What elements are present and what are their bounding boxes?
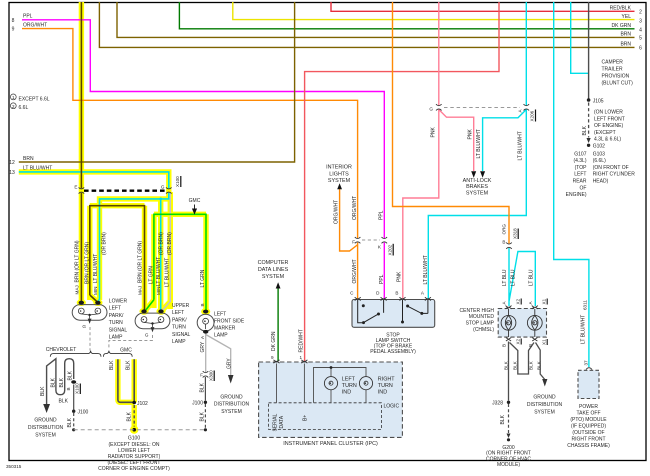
svg-text:(PTO) MODULE: (PTO) MODULE bbox=[570, 417, 607, 423]
svg-text:BLK: BLK bbox=[51, 377, 57, 387]
svg-text:LIGHTS: LIGHTS bbox=[329, 171, 349, 177]
svg-text:LT BLU/WHT: LT BLU/WHT bbox=[93, 254, 99, 283]
svg-text:TURN: TURN bbox=[172, 325, 186, 331]
lamp2 ground dash L-shape bbox=[109, 335, 153, 348]
svg-text:(OR BRN): (OR BRN) bbox=[167, 232, 173, 255]
svg-text:RED/BLK: RED/BLK bbox=[610, 5, 632, 11]
svg-text:BLK: BLK bbox=[127, 411, 133, 421]
svg-text:UPPER: UPPER bbox=[172, 303, 190, 309]
CHMSL box bbox=[498, 309, 546, 338]
svg-text:LT BLU/WHT: LT BLU/WHT bbox=[476, 129, 482, 158]
svg-text:STOP LAMP: STOP LAMP bbox=[466, 321, 495, 327]
svg-text:SYSTEM: SYSTEM bbox=[466, 191, 489, 197]
svg-text:LAMP: LAMP bbox=[109, 335, 123, 341]
wire GRY branch to ground dist bbox=[206, 335, 231, 376]
chevrolet brace bbox=[50, 351, 101, 357]
svg-text:PPL: PPL bbox=[23, 14, 33, 20]
svg-text:EXCEPT 6.6L: EXCEPT 6.6L bbox=[19, 96, 50, 102]
svg-text:BLK: BLK bbox=[67, 417, 73, 427]
svg-text:LT BLU/WHT: LT BLU/WHT bbox=[518, 131, 524, 160]
CHMSL terminals bbox=[506, 306, 512, 309]
svg-text:(6.6L): (6.6L) bbox=[593, 158, 606, 164]
GMC brace bbox=[103, 351, 132, 357]
legend except 6.6L bbox=[10, 94, 16, 100]
svg-text:BLK: BLK bbox=[68, 370, 74, 380]
svg-text:GROUND: GROUND bbox=[34, 418, 57, 424]
svg-text:ORG/WHT: ORG/WHT bbox=[23, 22, 47, 28]
svg-text:B: B bbox=[528, 344, 533, 347]
LOGIC box bbox=[269, 403, 382, 430]
svg-text:IND: IND bbox=[378, 389, 387, 395]
svg-text:PARK/: PARK/ bbox=[172, 317, 187, 323]
svg-text:CORNER OF ENGINE COMPT): CORNER OF ENGINE COMPT) bbox=[98, 466, 170, 472]
svg-text:LEFT FRONT: LEFT FRONT bbox=[594, 116, 625, 122]
svg-text:G: G bbox=[145, 333, 149, 338]
svg-text:LAMP: LAMP bbox=[172, 339, 186, 345]
svg-text:CHEVROLET: CHEVROLET bbox=[46, 347, 77, 353]
svg-text:PARK/: PARK/ bbox=[109, 313, 124, 319]
svg-text:TURN: TURN bbox=[342, 383, 357, 389]
svg-text:INSTRUMENT PANEL CLUSTER (IPC): INSTRUMENT PANEL CLUSTER (IPC) bbox=[283, 441, 378, 447]
connector X318 terminal B bbox=[506, 243, 512, 249]
svg-text:BLK: BLK bbox=[504, 360, 509, 370]
svg-text:LOWER: LOWER bbox=[109, 299, 128, 305]
wire BRN (OR LT GRN) MAJ to lower lamp bbox=[80, 2, 82, 301]
svg-text:TAKE OFF: TAKE OFF bbox=[576, 411, 600, 417]
svg-text:CAMPER: CAMPER bbox=[602, 60, 624, 66]
wire LT GRN park/marker bbox=[146, 214, 206, 310]
svg-text:OF ENGINE): OF ENGINE) bbox=[594, 123, 624, 129]
svg-text:X2: X2 bbox=[516, 338, 521, 344]
svg-text:2: 2 bbox=[639, 9, 642, 15]
svg-text:DATA: DATA bbox=[279, 415, 285, 428]
svg-text:SIGNAL: SIGNAL bbox=[109, 327, 128, 333]
svg-text:G103: G103 bbox=[593, 151, 605, 157]
svg-text:GROUND: GROUND bbox=[220, 394, 243, 400]
svg-text:G: G bbox=[161, 185, 165, 190]
svg-text:CENTER HIGH: CENTER HIGH bbox=[460, 308, 495, 314]
svg-text:ORG: ORG bbox=[502, 224, 507, 235]
wire BRN circuit 12 bbox=[19, 2, 295, 162]
svg-text:(CHMSL): (CHMSL) bbox=[473, 327, 494, 333]
upper left park/turn signal lamp bbox=[135, 313, 170, 332]
svg-text:B: B bbox=[502, 240, 505, 245]
svg-text:GRY: GRY bbox=[227, 358, 233, 369]
svg-text:X300: X300 bbox=[209, 370, 214, 381]
svg-text:J100: J100 bbox=[78, 410, 89, 416]
wire BLK CHMSL U link bbox=[510, 343, 535, 375]
wire PNK bbox=[403, 2, 439, 299]
svg-text:SERIAL: SERIAL bbox=[273, 413, 279, 431]
svg-text:BRN (OR LT GRN): BRN (OR LT GRN) bbox=[138, 241, 144, 283]
svg-text:LOGIC: LOGIC bbox=[384, 404, 400, 410]
wire ORG to X318 bbox=[393, 2, 510, 244]
svg-text:CHASSIS FRAME): CHASSIS FRAME) bbox=[567, 443, 610, 449]
wire GRY marker lamp ground bbox=[205, 334, 207, 372]
svg-text:PROVISION: PROVISION bbox=[602, 74, 630, 80]
wire BLK X300 to J100 right bbox=[204, 377, 206, 401]
svg-text:LT BLU/WHT: LT BLU/WHT bbox=[165, 258, 171, 287]
svg-text:PPL: PPL bbox=[379, 210, 385, 220]
svg-text:BLK: BLK bbox=[59, 399, 69, 405]
IPC box bbox=[259, 362, 403, 437]
node J100 left bbox=[72, 410, 75, 413]
svg-text:MAJ: MAJ bbox=[138, 286, 143, 295]
svg-text:ANTI-LOCK: ANTI-LOCK bbox=[463, 178, 492, 184]
svg-text:X1: X1 bbox=[542, 298, 547, 304]
svg-text:SYSTEM: SYSTEM bbox=[35, 433, 56, 439]
svg-text:6.6L: 6.6L bbox=[19, 105, 29, 111]
wire BLK CHMSL bulb1 to J328 bbox=[508, 342, 510, 401]
svg-text:B: B bbox=[395, 291, 398, 296]
svg-text:6: 6 bbox=[639, 46, 642, 52]
wire BLK X100 to J100 left bbox=[73, 385, 75, 410]
svg-text:COMPUTER: COMPUTER bbox=[258, 260, 289, 266]
svg-text:POWER: POWER bbox=[579, 404, 598, 410]
svg-text:SIGNAL: SIGNAL bbox=[172, 332, 191, 338]
wire BLK dashed to splice right bbox=[204, 404, 206, 428]
svg-text:4: 4 bbox=[639, 28, 642, 34]
svg-text:LT BLU/WHT: LT BLU/WHT bbox=[23, 165, 52, 171]
wire BLK dashed J328 to G200 bbox=[508, 404, 510, 433]
svg-text:1: 1 bbox=[299, 355, 302, 360]
svg-text:ENGINE): ENGINE) bbox=[566, 192, 587, 198]
svg-text:J328: J328 bbox=[492, 400, 503, 406]
svg-text:G: G bbox=[429, 107, 433, 112]
GMC pointer arrow bbox=[193, 205, 197, 214]
svg-text:LT BLU: LT BLU bbox=[502, 269, 508, 286]
wire LT BLU/WHT to stop lamp switch A bbox=[428, 2, 526, 299]
svg-text:MOUNTED: MOUNTED bbox=[469, 314, 495, 320]
connector X202 terminals F and K bbox=[355, 237, 361, 243]
svg-text:B: B bbox=[66, 387, 71, 390]
connector X300 terminal F bbox=[203, 371, 209, 377]
svg-text:MIN: MIN bbox=[156, 287, 161, 295]
connector X100 terminals E and G bbox=[79, 187, 85, 193]
svg-text:BLK: BLK bbox=[40, 386, 46, 396]
svg-text:SYSTEM: SYSTEM bbox=[534, 409, 555, 415]
connector X206 dashed line bbox=[444, 107, 520, 109]
IPC internal wires bbox=[277, 364, 367, 403]
svg-text:PNK: PNK bbox=[468, 129, 474, 140]
ground distribution arrow (marker lamp) bbox=[228, 375, 234, 384]
svg-text:SYSTEM: SYSTEM bbox=[221, 409, 242, 415]
svg-text:(EXCEPT: (EXCEPT bbox=[594, 130, 616, 136]
svg-text:(4.3L): (4.3L) bbox=[573, 158, 586, 164]
svg-text:F: F bbox=[200, 372, 203, 377]
svg-text:BLK: BLK bbox=[537, 360, 542, 370]
svg-text:PNK: PNK bbox=[431, 127, 437, 138]
svg-text:J105: J105 bbox=[593, 98, 604, 104]
svg-text:PNK: PNK bbox=[397, 271, 403, 282]
svg-text:G100: G100 bbox=[128, 435, 140, 441]
svg-text:PEDAL ASSEMBLY): PEDAL ASSEMBLY) bbox=[370, 349, 416, 355]
svg-text:RIGHT FRONT: RIGHT FRONT bbox=[571, 437, 605, 443]
svg-text:LEFT: LEFT bbox=[172, 310, 184, 316]
svg-text:J100: J100 bbox=[192, 400, 203, 406]
svg-text:OF: OF bbox=[580, 185, 587, 191]
wire ORG/WHT circuit 9 bbox=[22, 29, 358, 299]
wire BRN circuit 6 bbox=[99, 2, 634, 47]
svg-text:BRN (OR LT GRN): BRN (OR LT GRN) bbox=[75, 240, 81, 282]
svg-text:DISTRIBUTION: DISTRIBUTION bbox=[527, 402, 563, 408]
ground distribution arrow (CHMSL) bbox=[542, 379, 547, 387]
svg-text:BLK: BLK bbox=[500, 414, 506, 424]
svg-text:BLK: BLK bbox=[126, 360, 132, 370]
svg-text:F: F bbox=[352, 239, 355, 244]
svg-text:4.3L & 6.6L): 4.3L & 6.6L) bbox=[594, 137, 621, 143]
wire RED/BLK circuit 2 bbox=[331, 2, 635, 11]
svg-text:X100: X100 bbox=[75, 383, 80, 394]
svg-text:LT BLU/WHT: LT BLU/WHT bbox=[156, 257, 162, 286]
wire DK GRN circuit 4 bbox=[179, 2, 634, 29]
ground distribution arrow (chevrolet) bbox=[43, 404, 50, 413]
svg-text:9: 9 bbox=[12, 27, 15, 33]
wire PNK branch to ABS bbox=[439, 110, 474, 172]
node J102 bbox=[132, 401, 136, 405]
svg-text:13: 13 bbox=[9, 170, 15, 176]
IPC terminals bbox=[274, 360, 280, 363]
svg-text:E: E bbox=[74, 185, 77, 190]
svg-text:G107: G107 bbox=[574, 151, 586, 157]
wire LT BLU/WHT (OR BRN) alternate gray bbox=[163, 193, 171, 310]
wire LT BLU/WHT to PTO bbox=[554, 2, 589, 367]
svg-text:B: B bbox=[502, 344, 507, 347]
svg-text:HEAD): HEAD) bbox=[593, 179, 609, 185]
svg-text:BRN: BRN bbox=[620, 32, 631, 38]
svg-text:GMC: GMC bbox=[120, 348, 132, 354]
wire BLK CHMSL bulb2 to ground arrow bbox=[536, 343, 545, 380]
svg-text:DK GRN: DK GRN bbox=[271, 331, 277, 351]
svg-text:INTERIOR: INTERIOR bbox=[326, 165, 352, 171]
anti-lock brakes arrows bbox=[471, 171, 476, 178]
svg-text:ORG/WHT: ORG/WHT bbox=[352, 196, 358, 220]
node J100 right bbox=[204, 401, 207, 404]
wire DK GRN serial data bbox=[277, 289, 279, 362]
wire BLK dashed J100 to splice bbox=[73, 413, 75, 428]
PTO terminal 37 bbox=[586, 368, 592, 370]
svg-text:(ON LOWER: (ON LOWER bbox=[594, 110, 623, 116]
svg-text:GMC: GMC bbox=[189, 198, 201, 204]
svg-text:LT BLU/WHT: LT BLU/WHT bbox=[423, 255, 429, 284]
ground G102 arrow and node bbox=[587, 138, 591, 143]
svg-text:GRY: GRY bbox=[200, 341, 206, 352]
svg-text:LEFT: LEFT bbox=[214, 312, 226, 318]
svg-text:J102: J102 bbox=[137, 401, 148, 407]
lower left park/turn signal lamp bbox=[72, 305, 107, 324]
computer data lines arrow bbox=[276, 282, 281, 288]
svg-text:SYSTEM: SYSTEM bbox=[262, 274, 285, 280]
svg-text:BLK: BLK bbox=[200, 411, 206, 421]
svg-text:LT GRN: LT GRN bbox=[149, 266, 155, 284]
ground G200 arrow and node bbox=[507, 434, 511, 439]
svg-text:FRONT SIDE: FRONT SIDE bbox=[214, 319, 245, 325]
svg-text:REAR: REAR bbox=[573, 179, 587, 185]
svg-text:1: 1 bbox=[12, 95, 15, 100]
connector X100 dashed line bbox=[84, 190, 166, 192]
svg-text:LT BLU/WHT: LT BLU/WHT bbox=[581, 315, 587, 344]
svg-text:X202: X202 bbox=[388, 244, 393, 255]
svg-text:RED/WHT: RED/WHT bbox=[299, 329, 305, 352]
wire PPL circuit 8 bbox=[22, 20, 384, 299]
legend 6.6L bbox=[10, 103, 16, 109]
svg-text:GROUND: GROUND bbox=[533, 394, 556, 400]
svg-text:SYSTEM: SYSTEM bbox=[328, 178, 351, 184]
svg-text:G: G bbox=[82, 324, 86, 329]
svg-text:YEL: YEL bbox=[622, 14, 632, 20]
node G100 bbox=[132, 428, 136, 432]
svg-text:BLK: BLK bbox=[200, 382, 206, 392]
svg-text:ORG/WHT: ORG/WHT bbox=[352, 259, 358, 283]
svg-text:BLK: BLK bbox=[109, 360, 115, 370]
wire LT BLU/WHT circuit 13 highlighted bbox=[19, 172, 169, 310]
svg-text:BLK: BLK bbox=[582, 125, 588, 135]
svg-text:BLK: BLK bbox=[529, 360, 534, 370]
lamp terminals bbox=[71, 301, 208, 384]
wire BLK dashed J105 to G102 bbox=[588, 103, 590, 138]
interior lights system arrow bbox=[337, 183, 342, 189]
wire LT BLU/WHT branch to ABS bbox=[483, 110, 527, 172]
svg-text:IND: IND bbox=[342, 389, 351, 395]
node J105 bbox=[587, 98, 591, 102]
wire YEL circuit 3 bbox=[233, 2, 635, 20]
svg-text:2: 2 bbox=[12, 104, 15, 109]
wire BLK dashed J102 to G100 bbox=[133, 405, 135, 427]
stop lamp switch internals bbox=[358, 300, 428, 323]
right turn indicator bulb bbox=[359, 377, 372, 390]
svg-text:DISTRIBUTION: DISTRIBUTION bbox=[28, 425, 64, 431]
CHMSL bulb 2 bbox=[527, 315, 542, 330]
svg-text:B: B bbox=[200, 303, 205, 306]
PTO module box bbox=[578, 370, 599, 398]
svg-text:350315: 350315 bbox=[6, 464, 22, 469]
svg-text:RIGHT CYLINDER: RIGHT CYLINDER bbox=[593, 172, 636, 178]
svg-text:X2: X2 bbox=[516, 298, 521, 304]
svg-text:PPL: PPL bbox=[379, 274, 385, 284]
svg-text:BLK: BLK bbox=[59, 377, 65, 387]
wire ORG/WHT interior lights branch bbox=[340, 189, 358, 251]
wire BLK to J105 bbox=[588, 2, 590, 99]
svg-text:9: 9 bbox=[271, 355, 274, 360]
svg-text:6311: 6311 bbox=[583, 300, 588, 310]
svg-text:(OR BRN): (OR BRN) bbox=[159, 232, 165, 255]
svg-text:B+: B+ bbox=[303, 415, 309, 421]
svg-text:BRN (OR LT GRN): BRN (OR LT GRN) bbox=[85, 242, 91, 284]
svg-text:BRAKES: BRAKES bbox=[466, 184, 488, 190]
svg-text:BLK: BLK bbox=[513, 360, 518, 370]
connector X206 terminals G and A bbox=[436, 104, 442, 110]
svg-text:X318: X318 bbox=[513, 228, 518, 239]
wire RED/WHT bbox=[305, 2, 499, 361]
svg-text:X206: X206 bbox=[530, 110, 535, 121]
svg-text:BRN: BRN bbox=[23, 156, 34, 162]
left turn indicator bulb bbox=[324, 377, 337, 390]
wire BLK GMC grounds highlighted bbox=[118, 359, 134, 402]
svg-text:MAJ: MAJ bbox=[75, 285, 80, 294]
svg-text:DATA LINES: DATA LINES bbox=[258, 267, 289, 273]
svg-text:X100: X100 bbox=[175, 176, 180, 187]
svg-text:LT BLU: LT BLU bbox=[529, 269, 535, 286]
wire LT BLU camper trailer blunt cut bbox=[571, 2, 589, 73]
svg-text:ORG/WHT: ORG/WHT bbox=[334, 200, 340, 224]
stop lamp switch box bbox=[352, 300, 435, 328]
highlight underlay bbox=[19, 2, 206, 427]
svg-text:MODULE): MODULE) bbox=[497, 462, 520, 468]
svg-text:LT BLU: LT BLU bbox=[511, 269, 517, 286]
svg-text:LT GRN: LT GRN bbox=[200, 269, 206, 287]
svg-text:BRN: BRN bbox=[620, 42, 631, 48]
svg-text:LEFT: LEFT bbox=[342, 376, 356, 382]
wire BRN circuit 5 bbox=[117, 2, 635, 37]
wire BLK chevrolet ground serpentine bbox=[47, 359, 74, 405]
svg-text:(OR BRN): (OR BRN) bbox=[102, 232, 108, 255]
svg-text:5: 5 bbox=[639, 36, 642, 42]
svg-text:RIGHT: RIGHT bbox=[378, 376, 395, 382]
svg-text:MIN: MIN bbox=[93, 287, 98, 295]
svg-text:3: 3 bbox=[639, 19, 642, 25]
svg-text:TURN: TURN bbox=[378, 383, 393, 389]
svg-text:(ON FRONT OF: (ON FRONT OF bbox=[593, 165, 629, 171]
wire LT BLU X318 to CHMSL bbox=[509, 248, 535, 306]
splice dashed line J100-G100-J100 bbox=[74, 429, 206, 431]
wire BRN (OR LT GRN) link lower-upper bbox=[90, 206, 145, 310]
svg-text:LAMP: LAMP bbox=[214, 333, 228, 339]
svg-text:8: 8 bbox=[12, 18, 15, 24]
svg-text:DISTRIBUTION: DISTRIBUTION bbox=[214, 402, 250, 408]
node J328 bbox=[507, 401, 510, 404]
connector X202 dashed line bbox=[362, 239, 380, 241]
svg-text:37: 37 bbox=[584, 360, 589, 366]
svg-text:12: 12 bbox=[9, 160, 15, 166]
svg-text:(BLUNT CUT): (BLUNT CUT) bbox=[602, 81, 634, 87]
svg-text:X1: X1 bbox=[542, 339, 547, 345]
svg-text:(OUTSIDE OF: (OUTSIDE OF bbox=[572, 430, 604, 436]
svg-text:G102: G102 bbox=[593, 143, 605, 149]
svg-text:TRAILER: TRAILER bbox=[602, 67, 624, 73]
CHMSL bulb 1 bbox=[501, 315, 516, 330]
svg-text:MARKER: MARKER bbox=[214, 326, 236, 332]
svg-text:LEFT: LEFT bbox=[109, 306, 121, 312]
left front side marker lamp bbox=[197, 314, 214, 331]
svg-text:LEFT: LEFT bbox=[574, 172, 586, 178]
svg-text:DK GRN: DK GRN bbox=[612, 23, 632, 29]
svg-text:(TOP: (TOP bbox=[575, 165, 588, 171]
svg-text:(IF EQUIPPED): (IF EQUIPPED) bbox=[571, 424, 606, 430]
stop lamp switch terminals bbox=[355, 297, 361, 300]
lamp1 ground dash bbox=[89, 327, 91, 351]
svg-text:TURN: TURN bbox=[109, 320, 123, 326]
